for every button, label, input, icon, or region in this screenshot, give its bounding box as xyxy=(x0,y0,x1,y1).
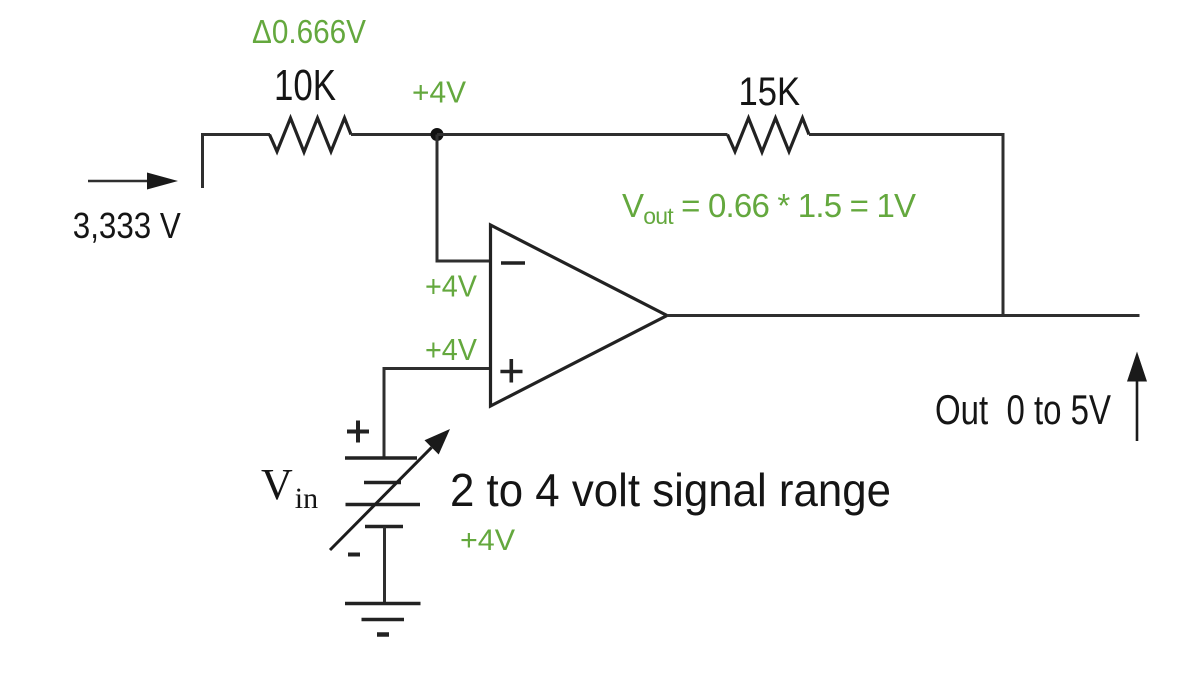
wire feedback vertical xyxy=(1002,133,1005,317)
battery short plate 2 xyxy=(365,525,403,529)
resistor R2 15K xyxy=(728,118,810,152)
battery minus sign xyxy=(348,553,360,557)
svg-text:Δ0.666V: Δ0.666V xyxy=(252,13,366,50)
battery long plate 1 xyxy=(345,456,417,460)
battery plus sign xyxy=(347,421,369,443)
svg-text:3,333 V: 3,333 V xyxy=(73,205,181,246)
ground xyxy=(345,604,421,635)
battery short plate 1 xyxy=(364,481,401,485)
output up arrow xyxy=(1127,352,1147,442)
svg-text:2 to 4 volt signal range: 2 to 4 volt signal range xyxy=(450,464,891,516)
svg-text:10K: 10K xyxy=(274,61,336,110)
svg-text:+4V: +4V xyxy=(412,75,466,110)
svg-text:+4V: +4V xyxy=(460,524,515,557)
wire non-inverting input xyxy=(384,369,489,459)
op-amp U1 xyxy=(491,225,668,406)
wire output xyxy=(667,314,1140,317)
svg-text:+4V: +4V xyxy=(425,269,477,304)
battery V1 plates xyxy=(345,458,420,527)
wire R2 to feedback corner xyxy=(809,133,1005,136)
input arrow xyxy=(88,173,178,190)
node A junction dot xyxy=(431,128,444,141)
op-amp plus pin mark xyxy=(500,370,522,374)
svg-text:15K: 15K xyxy=(739,70,801,114)
resistor R1 10K xyxy=(270,118,352,152)
wire R1 to node A xyxy=(351,133,437,136)
battery long plate 2 xyxy=(346,503,421,507)
svg-text:+4V: +4V xyxy=(425,332,477,367)
variable-source diagonal arrow xyxy=(330,429,450,550)
wire input L-stub xyxy=(203,135,271,189)
svg-text:Out 0 to 5V: Out 0 to 5V xyxy=(935,386,1111,433)
op-amp minus pin mark xyxy=(501,261,525,265)
wire battery to ground xyxy=(383,527,386,604)
wire node A down to inverting input xyxy=(437,135,489,262)
wire node A to R2 xyxy=(437,133,728,136)
